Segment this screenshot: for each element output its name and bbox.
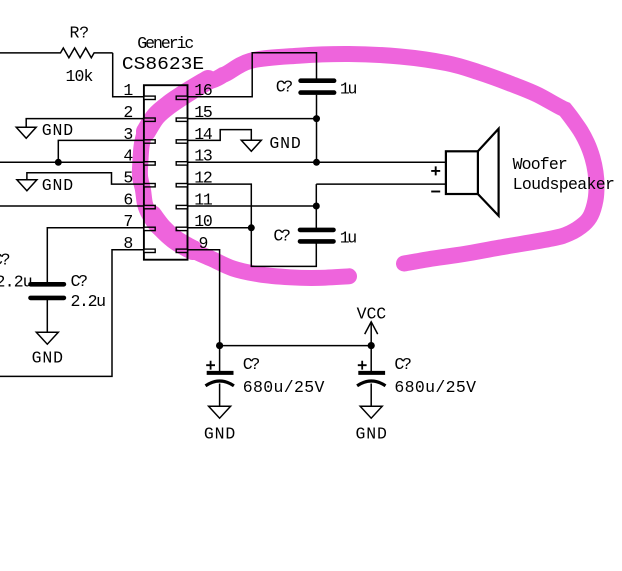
wire VCC rail [220, 345, 372, 347]
U1 pin 1 [123, 81, 155, 100]
svg-text:5: 5 [123, 169, 133, 188]
junction C2/pin11 [313, 203, 320, 210]
wire U1 pin 10 [188, 227, 252, 229]
svg-text:680u/25V: 680u/25V [243, 378, 325, 397]
U1 pin 8 [123, 234, 155, 253]
U1 pin 10 [176, 212, 213, 231]
ground GND (pin 5) [17, 176, 73, 195]
loudspeaker LS? [431, 129, 615, 216]
wire C 2.2u to GND [46, 300, 48, 333]
svg-text:1u: 1u [340, 229, 358, 248]
svg-text:GND: GND [42, 176, 73, 195]
svg-text:GND: GND [32, 349, 63, 368]
ground GND (below 2.2u) [32, 332, 63, 367]
svg-text:C?: C? [243, 355, 260, 374]
wire U1 pin 15 [188, 118, 317, 120]
wire U1 pin 3 to node on pin 4 net [58, 140, 144, 162]
svg-text:C?: C? [71, 272, 89, 291]
junction pin3/pin4 node [55, 159, 62, 166]
svg-text:1: 1 [123, 81, 133, 100]
wire U1 pin 5 to GND [27, 173, 144, 184]
wire U1 pin 13 to loudspeaker + [188, 161, 446, 163]
svg-text:680u/25V: 680u/25V [394, 378, 476, 397]
svg-text:Generic: Generic [137, 34, 194, 53]
power VCC symbol [357, 304, 387, 345]
svg-text:C?: C? [0, 250, 11, 269]
junction C1/pin15 [313, 115, 320, 122]
junction rail left [216, 342, 223, 349]
wire U1 pin 8 net [0, 250, 144, 377]
wire U1 pin 7 to capacitor C? 2.2u [47, 228, 144, 283]
U1 pin 3 [123, 125, 155, 144]
U1 pin 2 [123, 103, 155, 122]
svg-text:6: 6 [123, 190, 133, 209]
svg-text:8: 8 [123, 234, 133, 253]
wire resistor to U1 pin 1 [113, 53, 144, 97]
U1 pin 4 [123, 147, 155, 166]
wire U1 pin 6 net [0, 205, 144, 207]
svg-text:C?: C? [276, 78, 294, 97]
wire U1 pin 11 [188, 205, 317, 207]
wire U1 pin 9 to VCC rail [188, 250, 220, 346]
U1 pin 12 [176, 169, 213, 188]
pin - label [431, 191, 440, 193]
U1 pin 6 [123, 190, 155, 209]
U1 pin 13 [176, 147, 213, 166]
junction C1/pin13 [313, 159, 320, 166]
U1 pin 9 [176, 234, 208, 253]
wire U1 pin 4 net [0, 161, 144, 163]
svg-text:GND: GND [269, 134, 300, 153]
U1 pin 15 [176, 103, 213, 122]
svg-text:Woofer: Woofer [513, 155, 568, 174]
resistor R? 10k [0, 24, 113, 86]
U1 pin 14 [176, 125, 213, 144]
svg-text:10k: 10k [66, 67, 94, 86]
annotation pink marker loop [140, 54, 597, 278]
svg-text:4: 4 [123, 147, 133, 166]
wire U1 pin 14 to GND [188, 130, 252, 141]
svg-text:GND: GND [204, 424, 235, 443]
svg-text:C?: C? [394, 355, 412, 374]
capacitor C? 2.2u (off-canvas left, labels only) [0, 250, 33, 291]
svg-text:VCC: VCC [357, 304, 387, 323]
capacitor C? 680u/25V (left electrolytic) [206, 346, 325, 407]
capacitor C? 2.2u [31, 272, 107, 311]
wire U1 pin 2 to GND [26, 119, 144, 128]
capacitor C? 1u (top) [276, 78, 358, 99]
pin + label [431, 166, 440, 175]
ground GND (pin 14) [241, 134, 301, 153]
wire C2 top to speaker minus wire [315, 184, 317, 228]
capacitor C? 1u (lower) [273, 227, 357, 248]
svg-text:GND: GND [356, 424, 387, 443]
wire U1 pin 12 to C2 bottom [188, 184, 317, 266]
svg-text:GND: GND [42, 121, 73, 140]
U1 pin 11 [176, 190, 213, 209]
svg-text:1u: 1u [340, 80, 358, 99]
svg-text:CS8623E: CS8623E [122, 55, 204, 75]
svg-text:3: 3 [123, 125, 133, 144]
IC U1 Generic CS8623E body [122, 34, 204, 260]
U1 pin 16 [176, 81, 213, 100]
svg-text:2.2u: 2.2u [0, 273, 33, 292]
svg-text:7: 7 [123, 212, 133, 231]
capacitor C? 680u/25V (right electrolytic) [357, 346, 476, 407]
ground GND (pin 2) [16, 121, 73, 140]
wire loudspeaker minus [316, 183, 446, 185]
wire U1 pin 16 to capacitor C1 top [188, 53, 317, 97]
ground GND (left electrolytic) [204, 406, 235, 443]
svg-text:R?: R? [69, 24, 89, 43]
svg-text:2.2u: 2.2u [71, 292, 107, 311]
U1 pin 7 [123, 212, 155, 231]
svg-text:2: 2 [123, 103, 133, 122]
junction pin12 net / pin10 [248, 224, 255, 231]
ground GND (right electrolytic) [356, 406, 387, 443]
U1 pin 5 [123, 169, 155, 188]
wire C1 bottom through pins 15,13 [316, 95, 318, 163]
svg-text:C?: C? [273, 227, 291, 246]
junction rail right / VCC [368, 342, 375, 349]
